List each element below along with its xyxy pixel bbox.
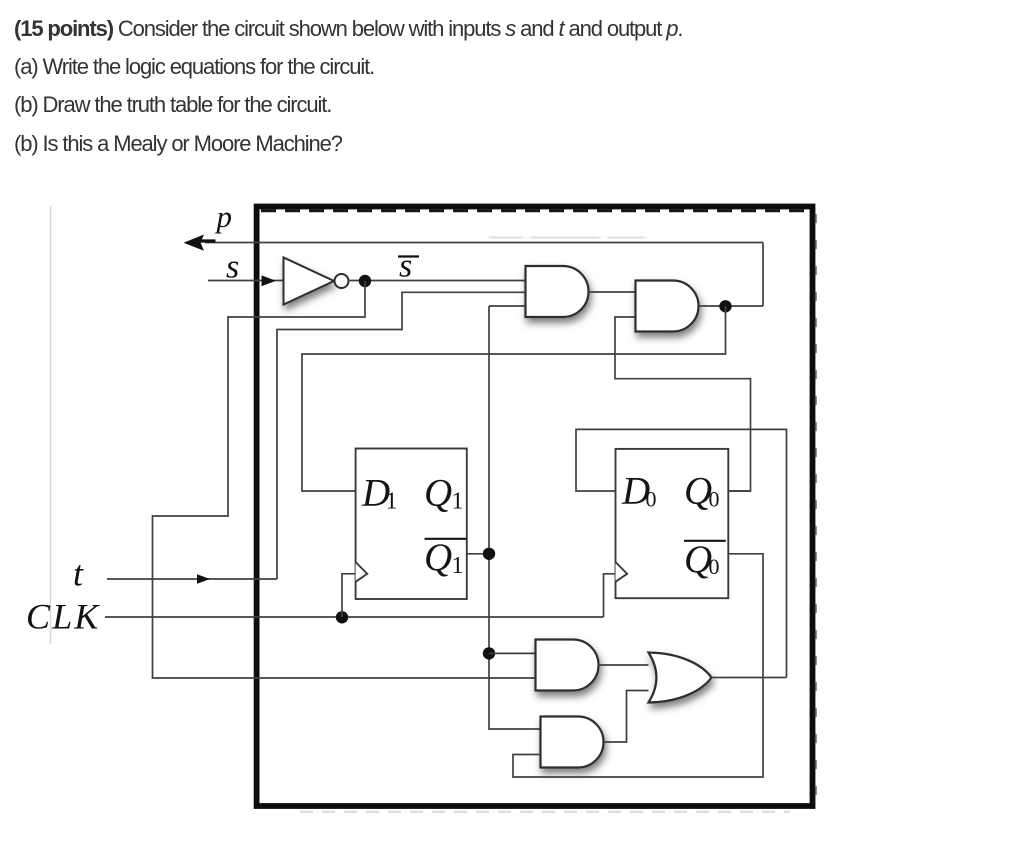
wire: U4 output to OR U6 [599, 664, 649, 666]
junction dot CLK [336, 611, 348, 623]
dashed ticks inside right border [814, 214, 816, 800]
dashed line under top border [261, 209, 809, 212]
junction dot Qbar1 [483, 548, 495, 560]
wire: U3 output feedback to FF1 D input [302, 306, 726, 491]
arrowhead t [197, 574, 210, 584]
wire: t rises to AND U2 middle input [277, 292, 526, 579]
wire: Q0 z-path to AND U3 lower input [615, 317, 751, 491]
inverter U1 [284, 258, 349, 305]
arrowhead p (points left) [184, 235, 205, 251]
wire: U3 output to p riser [699, 305, 764, 307]
AND gate U4 [536, 640, 599, 691]
label Q0 [684, 470, 720, 513]
FF1 clock triangle [356, 562, 368, 582]
svg-text:p: p [215, 199, 233, 234]
wire: s input line [208, 280, 284, 282]
wire: sbar from inverter to AND U2 [349, 280, 526, 282]
OR gate U6 [649, 653, 712, 703]
svg-text:0: 0 [709, 554, 720, 579]
wire: sbar feedback down-left to AND U5 lower input [153, 281, 536, 678]
wire: U5 output up to OR U6 lower input [604, 691, 649, 743]
wire: clock riser to FF0 [604, 574, 616, 617]
svg-text:s: s [226, 249, 239, 286]
wire: p output line [205, 242, 763, 244]
wire: clock riser to FF1 [342, 574, 356, 617]
wire: stub to AND U2 third input [489, 305, 526, 307]
wire: loop up and into FF0 D input [576, 429, 787, 677]
label Q1bar [424, 536, 466, 579]
junction dot sbar [359, 275, 371, 287]
FF0 clock triangle [616, 562, 628, 582]
svg-text:Q: Q [424, 536, 452, 579]
junction dot U3 output [719, 300, 731, 312]
label Q0bar [684, 538, 726, 581]
junction dot AND U4 tap [483, 647, 495, 659]
svg-text:1: 1 [386, 489, 398, 515]
AND gate U3 [636, 281, 699, 332]
wire: riser from U3 output to p line [762, 243, 764, 307]
svg-text:CLK: CLK [26, 596, 101, 636]
svg-text:t: t [73, 554, 84, 594]
wire: Q0 output stub [728, 490, 750, 492]
scan artifact: faint smudge above AND gate [489, 237, 645, 238]
svg-text:1: 1 [452, 553, 464, 579]
svg-text:1: 1 [452, 489, 464, 515]
svg-text:s: s [399, 248, 412, 285]
svg-text:0: 0 [646, 487, 657, 512]
wire: t input line [107, 578, 277, 580]
svg-text:Q: Q [424, 472, 452, 515]
scan artifact: faint left vertical line [50, 206, 52, 644]
AND gate U2 [526, 266, 589, 317]
svg-text:0: 0 [709, 487, 720, 512]
enclosure box [257, 207, 813, 807]
flip-flop FF0 box [616, 449, 729, 598]
wire: Qbar0 to AND U5 lower input [513, 554, 763, 777]
wire: CLK line [105, 616, 604, 618]
label D0 [621, 470, 657, 513]
label D1 [361, 472, 398, 515]
label sbar [398, 248, 419, 285]
wire: U2 output to U3 [589, 291, 636, 293]
wire: bus tap to AND U4 upper input [489, 652, 536, 654]
flip-flop FF1 box [356, 449, 467, 600]
AND gate U5 [541, 717, 604, 768]
arrowhead s [262, 275, 277, 286]
label Q1 [424, 472, 464, 515]
wire: Qbar1 vertical bus x=489 [489, 306, 541, 729]
wire: U6 output to FF0 D loop [712, 677, 787, 679]
faint dashes under bottom border [300, 811, 790, 813]
wire: Qbar1 output to bus [467, 553, 489, 555]
